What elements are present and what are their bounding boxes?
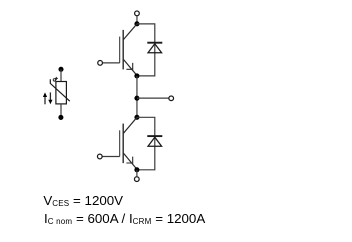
transistor T2 (bottom IGBT) — [102, 117, 137, 169]
gate bar T1 — [119, 37, 121, 63]
gate lead wire T2 — [102, 156, 120, 158]
emitter lead T2 — [123, 153, 136, 169]
gate lead wire T1 — [102, 62, 119, 64]
node thermistor top terminal — [58, 67, 63, 72]
terminal G2 (bottom gate terminal) — [97, 154, 102, 159]
diode D1 (top freewheeling diode) — [147, 43, 162, 53]
terminal P (top collector terminal) — [135, 11, 140, 16]
emitter arrow T2 — [126, 157, 133, 163]
channel bar T2 — [122, 124, 124, 164]
gate bar T2 — [119, 130, 121, 156]
label IC nom / ICRM rating — [44, 211, 205, 229]
wire thermistor top — [60, 69, 62, 81]
arrow down (current direction) — [48, 92, 52, 104]
node collector T2 — [134, 115, 139, 120]
wire emitter node to lower collector node — [136, 76, 138, 117]
node emitter T1 — [134, 73, 139, 78]
emitter lead T1 — [123, 59, 136, 75]
thermistor R body rectangle — [56, 82, 67, 104]
node thermistor bottom terminal — [58, 115, 63, 120]
wire thermistor bottom — [60, 104, 62, 118]
terminal N (bottom emitter terminal) — [134, 177, 139, 182]
wire top terminal to node — [136, 16, 138, 22]
node junction top (collector node) — [134, 21, 139, 26]
thermistor theta mark — [53, 77, 58, 81]
node AC output — [134, 96, 139, 101]
node emitter T2 — [134, 167, 139, 172]
label VCES rating — [43, 193, 123, 211]
transistor T1 (top IGBT) — [102, 24, 137, 76]
wire top node through diode D1 branch to emitter node — [137, 24, 155, 76]
channel bar T1 — [122, 30, 124, 70]
wire to AC terminal — [137, 97, 169, 99]
wire emitter node to bottom terminal — [136, 170, 138, 176]
terminal G1 (top gate terminal) — [98, 61, 103, 66]
thermistor diagonal with hook — [50, 79, 70, 101]
terminal AC output — [169, 96, 174, 101]
collector lead T1 — [123, 24, 137, 40]
collector lead T2 — [123, 117, 137, 133]
diode D2 (bottom freewheeling diode) — [147, 136, 162, 146]
arrow up (current direction) — [43, 92, 47, 104]
emitter arrow T1 — [126, 63, 133, 69]
wire lower node through diode D2 branch to emitter node — [137, 117, 155, 170]
